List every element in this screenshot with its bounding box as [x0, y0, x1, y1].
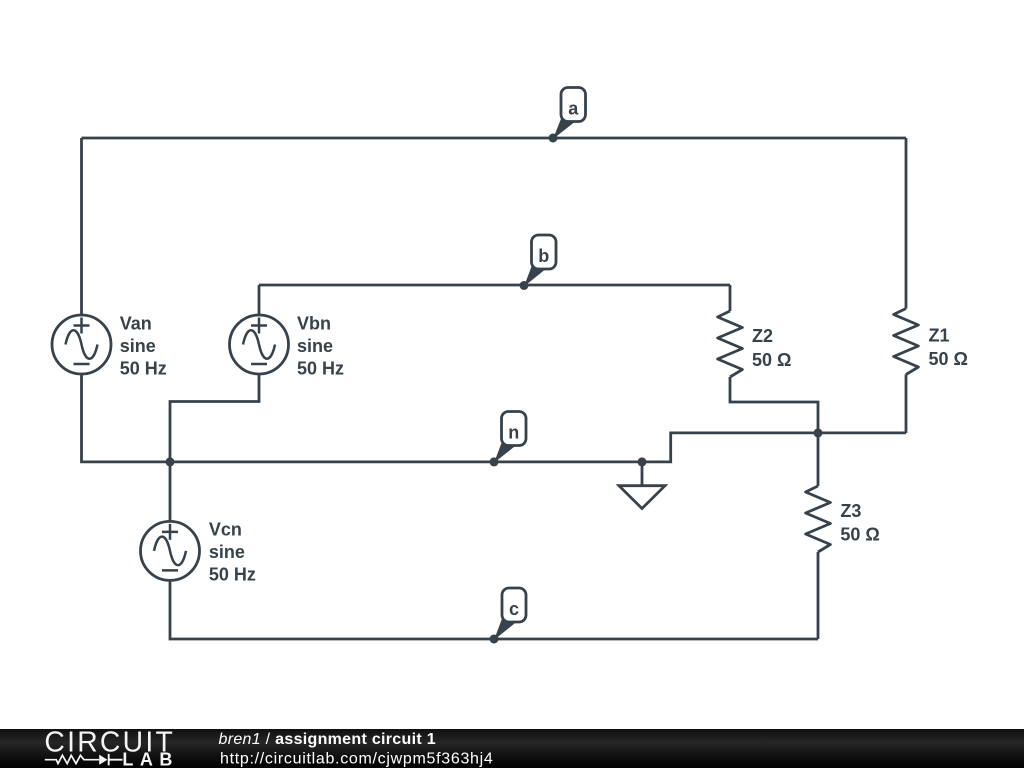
- svg-text:Vbn: Vbn: [297, 314, 331, 334]
- node a label box: [561, 88, 586, 122]
- node b label box: [532, 235, 557, 269]
- wire b (horizontal net b): [259, 284, 730, 287]
- svg-text:http://circuitlab.com/cjwpm5f3: http://circuitlab.com/cjwpm5f363hj4: [220, 751, 494, 768]
- svg-text:n: n: [508, 423, 519, 443]
- wire Vbn top lead: [258, 285, 261, 315]
- CircuitLab logo resistor-diode squiggle: [45, 755, 99, 763]
- junction dot ground: [638, 457, 647, 466]
- node a junction dot: [549, 134, 558, 143]
- node c junction dot: [490, 635, 499, 644]
- resistor Z2: [718, 311, 743, 377]
- resistor Z1: [894, 309, 919, 375]
- junction dot sources/net n: [166, 457, 175, 466]
- svg-text:Van: Van: [120, 314, 152, 334]
- footer bar: [0, 729, 1024, 768]
- voltage source Vcn: [141, 521, 200, 580]
- wire Vcn top lead: [169, 462, 172, 522]
- node b flag pointer: [524, 263, 545, 287]
- node a flag pointer: [553, 115, 574, 139]
- wire Z1 bottom lead: [905, 375, 908, 433]
- svg-text:c: c: [509, 599, 519, 619]
- svg-text:a: a: [568, 99, 579, 119]
- ground: [619, 462, 665, 509]
- svg-text:50 Ω: 50 Ω: [752, 350, 791, 370]
- svg-text:sine: sine: [297, 336, 333, 356]
- wire Z2 bottom lead to junction: [730, 377, 818, 433]
- node n flag pointer: [494, 439, 515, 463]
- wire a (top horizontal net a): [82, 137, 907, 140]
- wire Z2 top lead: [729, 285, 732, 311]
- svg-text:sine: sine: [120, 336, 156, 356]
- svg-text:b: b: [538, 246, 549, 266]
- node c label box: [502, 588, 526, 622]
- node n junction dot: [490, 457, 499, 466]
- wire Z1 top lead (net a down to Z1): [905, 138, 908, 309]
- svg-text:sine: sine: [209, 542, 245, 562]
- svg-text:LAB: LAB: [122, 750, 178, 768]
- wire Z3 top lead: [817, 433, 820, 486]
- node b junction dot: [520, 281, 529, 290]
- svg-text:Z3: Z3: [840, 501, 861, 521]
- svg-text:50 Ω: 50 Ω: [929, 349, 968, 369]
- svg-text:bren1 / assignment circuit 1: bren1 / assignment circuit 1: [219, 731, 436, 748]
- wire Vbn bottom to node n junction: [170, 374, 259, 462]
- node c flag pointer: [494, 616, 515, 640]
- voltage source Vbn: [230, 315, 289, 374]
- svg-text:50 Hz: 50 Hz: [297, 358, 344, 378]
- svg-text:50 Ω: 50 Ω: [840, 525, 879, 545]
- wire Van bottom to node n junction: [82, 374, 171, 462]
- svg-text:Vcn: Vcn: [209, 520, 242, 540]
- svg-text:Z2: Z2: [752, 326, 773, 346]
- svg-text:50 Hz: 50 Hz: [120, 358, 167, 378]
- node n label box: [502, 412, 527, 446]
- wire Z3 bottom lead: [817, 552, 820, 639]
- voltage source Van: [52, 315, 111, 374]
- svg-text:Z1: Z1: [929, 325, 950, 345]
- wire n (horizontal net n with step up to junction row): [170, 433, 906, 462]
- junction dot Z1 Z2 Z3: [814, 428, 823, 437]
- resistor Z3: [806, 486, 831, 552]
- svg-text:50 Hz: 50 Hz: [209, 564, 256, 584]
- wire Vcn bottom and wire c (horizontal net c): [170, 580, 818, 639]
- wire left vertical (net a to Van +): [80, 138, 83, 315]
